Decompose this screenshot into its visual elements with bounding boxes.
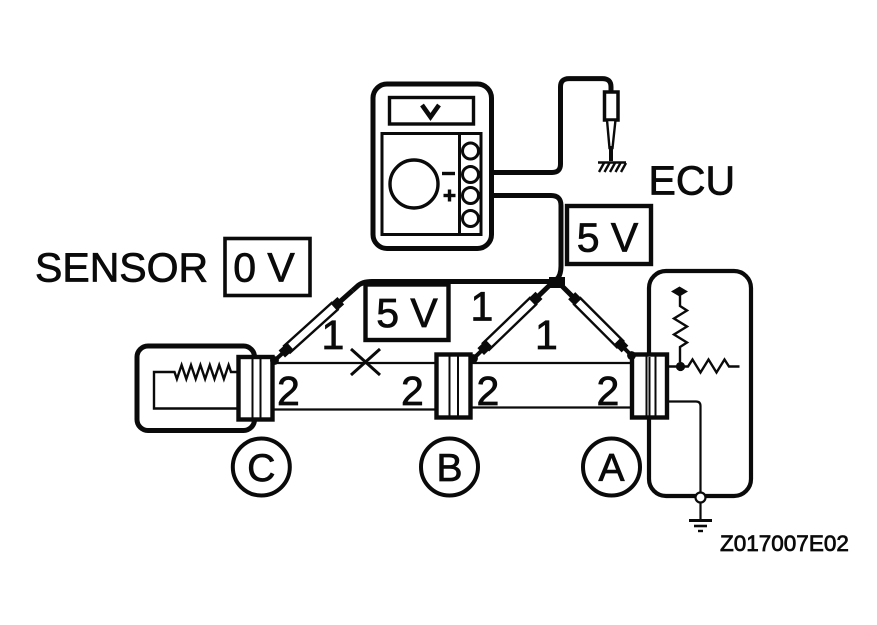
multimeter lower panel: [382, 134, 481, 235]
sensor resistor loop: [154, 365, 240, 409]
5V box middle: [366, 285, 449, 341]
chassis ground under back-probe: [598, 163, 626, 173]
svg-text:1: 1: [322, 312, 345, 358]
junction dot in ECU: [676, 362, 685, 371]
ECU pin 2 ground wire: [667, 402, 701, 493]
sensor body: [137, 346, 255, 431]
svg-text:2: 2: [401, 368, 424, 414]
svg-text:2: 2: [277, 368, 300, 414]
terminal circle 2 (minus): [463, 167, 479, 183]
earth ground symbol under ECU: [689, 503, 712, 532]
multimeter dial: [390, 160, 438, 208]
minus terminal label: [442, 172, 455, 175]
svg-text:5 V: 5 V: [577, 215, 639, 261]
harness wire 2 (bottom) C to B: [272, 408, 437, 410]
wire: meter minus lead to back-probe: [477, 79, 611, 173]
panel divider: [458, 134, 461, 235]
harness wire 1 (top) B to A: [470, 362, 633, 364]
probe at connector B pin 1: [469, 281, 554, 363]
terminal circle 3 (plus): [463, 188, 479, 204]
multimeter display: [390, 98, 474, 125]
harness wire 1 (top) C to B: [272, 362, 437, 364]
svg-text:5 V: 5 V: [376, 290, 438, 336]
connector B: [437, 355, 471, 418]
junction of plus lead probes: [549, 277, 565, 288]
ECU ground terminal circle: [696, 493, 706, 503]
ECU 5V supply node (filled diamond): [671, 287, 688, 297]
svg-text:A: A: [598, 447, 624, 490]
0V box: [225, 239, 310, 296]
svg-text:B: B: [436, 447, 462, 490]
circle label A: [583, 439, 640, 496]
5V box at ECU: [567, 206, 651, 264]
svg-text:2: 2: [477, 368, 500, 414]
terminal circle 4: [463, 211, 479, 227]
voltmeter V symbol: [422, 105, 439, 117]
circle label C: [233, 439, 290, 496]
ECU series resistor (horizontal): [667, 360, 740, 373]
probe at connector A pin 1: [558, 282, 636, 360]
svg-text:C: C: [247, 447, 275, 490]
multimeter body: [373, 84, 492, 249]
plus terminal label: [444, 190, 456, 202]
svg-text:ECU: ECU: [649, 158, 736, 204]
connector A: [632, 355, 667, 418]
svg-text:SENSOR: SENSOR: [35, 245, 208, 291]
terminal circle 1: [463, 143, 479, 159]
svg-text:Z017007E02: Z017007E02: [720, 531, 849, 556]
wire: meter plus lead down to probe junction: [477, 196, 561, 281]
wire: junction to sensor C probe (horizontal over 5V box): [353, 282, 555, 291]
harness wire 2 (bottom) B to A: [470, 406, 633, 408]
connector C: [239, 357, 273, 420]
svg-text:1: 1: [535, 312, 558, 358]
svg-text:1: 1: [471, 284, 494, 330]
ECU body: [649, 271, 751, 496]
ECU left border seen through connector A: [649, 357, 651, 420]
svg-text:2: 2: [597, 368, 620, 414]
back-probe at ECU harness (minus lead): [605, 92, 619, 161]
circle label B: [421, 439, 478, 496]
svg-text:0 V: 0 V: [233, 245, 295, 291]
open-circuit X mark on wire 1: [351, 349, 380, 375]
ECU pull-up resistor (vertical): [674, 295, 687, 362]
probe at connector C pin 1: [270, 291, 352, 365]
